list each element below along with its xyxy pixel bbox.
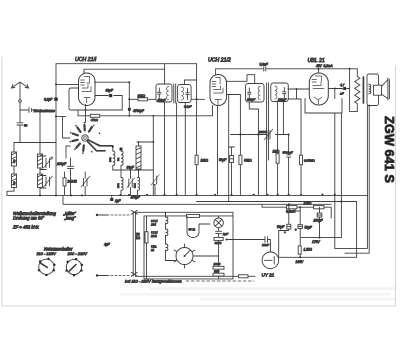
IF2 secondary bottom leads <box>277 101 279 195</box>
jog bus1 to bus2 <box>164 64 166 69</box>
resistor 120 ohm <box>314 206 325 209</box>
trimmer line <box>231 134 289 136</box>
dashed link <box>186 280 254 282</box>
tube UBL21 envelope <box>309 73 328 105</box>
wire row link <box>113 169 154 171</box>
wire rail to tube1 <box>56 83 79 85</box>
NOISE <box>120 287 395 301</box>
wire anode down long <box>334 89 336 249</box>
capacitor 1uF on bus <box>110 195 121 202</box>
pilot lamp <box>214 216 224 231</box>
wire rectifier cathode <box>278 231 280 258</box>
wire to coils <box>14 126 20 152</box>
heater UY21 <box>187 216 210 238</box>
wire resistor chain <box>218 257 220 279</box>
IF transformer 2 secondary box <box>271 83 289 102</box>
output transformer core <box>362 77 364 103</box>
electrolytic 50uF psu <box>295 211 313 246</box>
rectifier UY21 <box>262 252 279 278</box>
svg-text:165V: 165V <box>296 260 305 264</box>
svg-text:2×B42: 2×B42 <box>67 180 78 184</box>
resistor in top line <box>187 214 200 217</box>
svg-text:120Ω: 120Ω <box>304 202 312 206</box>
resistor 47k below tube1 <box>78 110 213 116</box>
tube1 pin down to switch <box>85 105 87 123</box>
wire coil chain 2 to bus <box>39 188 41 195</box>
svg-text:47kΩ: 47kΩ <box>91 118 99 122</box>
svg-text:0,1μF: 0,1μF <box>44 98 53 102</box>
wire anode down <box>128 82 130 116</box>
IF transformer 1 primary box <box>156 84 172 102</box>
electrolytic 50uF first <box>287 224 291 229</box>
svg-text:6,8mH: 6,8mH <box>286 210 296 214</box>
top bus 2 <box>84 69 165 84</box>
svg-text:6200: 6200 <box>215 241 222 245</box>
svg-text:4,7: 4,7 <box>340 83 345 87</box>
svg-text:102pF: 102pF <box>158 98 166 102</box>
svg-text:30pF: 30pF <box>127 166 135 170</box>
page border right <box>395 66 397 306</box>
resistor 6200 <box>214 237 223 257</box>
wire transformer feed <box>350 69 358 112</box>
switch left contact wires <box>66 146 70 158</box>
rail from bus1 down <box>196 64 198 195</box>
node dots on ground bus <box>39 194 336 197</box>
resistor 550 <box>213 270 224 277</box>
coil L3 330 <box>38 112 43 168</box>
plug Hochantenne <box>29 108 32 113</box>
wire choke feed <box>289 207 300 211</box>
wire rail to switch <box>56 115 66 117</box>
choke 6.8mH <box>287 206 298 209</box>
svg-text:10kΩ: 10kΩ <box>138 94 146 98</box>
mains lead top <box>98 214 107 216</box>
capacitor 62pF right of tube1 <box>95 89 122 98</box>
svg-text:50μF: 50μF <box>305 226 313 230</box>
resistor primary zigzag <box>355 69 360 112</box>
svg-text:kΩ: kΩ <box>136 236 141 240</box>
wire selector to heaters <box>166 256 219 261</box>
svg-text:102pF: 102pF <box>247 98 255 102</box>
wire <box>39 168 41 174</box>
rail2 with resistor 6.8k <box>229 95 241 195</box>
B+ bus second <box>63 195 331 204</box>
svg-text:+: + <box>284 230 286 234</box>
speaker return wires <box>335 106 368 249</box>
wire 165V line <box>279 202 357 258</box>
heater bus top <box>135 211 233 213</box>
svg-text:ZF = 452 kHz: ZF = 452 kHz <box>12 224 40 229</box>
capacitor 50pF <box>17 123 23 125</box>
top bus 1 <box>56 63 197 65</box>
voltage selector plug 220V <box>65 258 83 277</box>
IF1 secondary top stub <box>185 80 197 85</box>
svg-text:21: 21 <box>150 248 155 252</box>
wire antenna down <box>19 110 21 122</box>
resistor 550 mains <box>239 275 249 278</box>
output transformer secondary box <box>367 74 379 106</box>
svg-text:50μF: 50μF <box>277 225 285 229</box>
capacitor 4700pF <box>128 108 131 111</box>
capacitor 5.8nF <box>264 67 266 71</box>
filter line with choke <box>262 204 331 218</box>
resistor 1800 <box>213 262 224 269</box>
svg-text:102pF: 102pF <box>278 97 286 101</box>
svg-text:10kΩ: 10kΩ <box>201 159 209 163</box>
wire to rail <box>20 142 56 144</box>
svg-text:4700pF: 4700pF <box>133 109 145 113</box>
tube1 top cap wire <box>83 69 85 73</box>
trimmer 30pF <box>127 166 135 195</box>
heater UCH21/2 <box>150 223 168 238</box>
box below tube3 <box>305 99 342 114</box>
trimmer 10/30 <box>259 129 273 140</box>
coil L2 500 <box>12 174 17 188</box>
svg-text:5,8nF: 5,8nF <box>260 63 269 67</box>
coil 1502 <box>118 178 123 195</box>
capacitor 22nF <box>226 237 271 252</box>
coil 1514 <box>113 170 140 195</box>
resistor 12k <box>298 246 312 257</box>
IF2 primary top feed <box>254 75 256 84</box>
svg-text:ZGW 641 S: ZGW 641 S <box>382 116 397 183</box>
oscillator trimmer <box>151 175 159 195</box>
voltage selector plug 110V <box>38 258 56 277</box>
svg-text:68kΩ: 68kΩ <box>244 159 252 163</box>
tube2 top cap wire <box>215 69 217 75</box>
rotary wave switch <box>72 125 92 151</box>
left rail <box>55 64 57 196</box>
svg-text:200 - 220V: 200 - 220V <box>67 251 88 256</box>
wire <box>13 166 15 174</box>
svg-text:0,55MΩ: 0,55MΩ <box>304 159 315 163</box>
switch contact dots <box>69 122 100 154</box>
IF1 secondary leads <box>177 103 186 195</box>
electrolytic 100uF <box>314 207 324 237</box>
trimmer mid <box>81 172 90 195</box>
trimmer C antenna 2 <box>40 176 53 189</box>
svg-text:1800: 1800 <box>214 262 221 266</box>
IF transformer 2 primary box <box>246 84 265 103</box>
IF2 primary bottom wire <box>249 102 258 195</box>
oscillator wire <box>137 115 154 176</box>
mains lead bottom <box>98 275 107 277</box>
wire plug to chain2 <box>33 110 41 112</box>
loudspeaker <box>374 78 390 100</box>
tube3 internals <box>312 76 324 104</box>
svg-text:175V: 175V <box>312 240 321 244</box>
svg-text:1MΩ: 1MΩ <box>273 150 280 154</box>
svg-text:„lang“: „lang“ <box>64 216 77 221</box>
IF1 secondary to tube2 grid <box>192 98 205 100</box>
svg-text:100pF: 100pF <box>57 162 67 166</box>
svg-text:100μF: 100μF <box>314 219 324 223</box>
IF2 core <box>267 83 269 102</box>
resistor 0.55M rail4 <box>288 134 316 195</box>
IF2 secondary to tube3 diode <box>283 89 309 135</box>
diode return wire <box>288 89 301 155</box>
resistor 10k line <box>129 98 156 100</box>
resistor 2x B42 <box>63 172 77 195</box>
coupling line with 5.8nF <box>216 68 358 70</box>
IF1 core <box>174 84 176 103</box>
svg-text:45V 0,3mA: 45V 0,3mA <box>316 64 333 68</box>
heater UCH21/I <box>150 212 168 226</box>
grid box around tube1 left <box>69 88 122 110</box>
svg-text:4μF: 4μF <box>104 243 111 247</box>
mains switch <box>131 210 137 276</box>
capacitor 1uF lamp <box>216 231 230 237</box>
svg-text:UCH 21/2: UCH 21/2 <box>208 58 231 64</box>
coil 1513 <box>136 141 141 170</box>
capacitor 5000pF <box>283 135 293 195</box>
tube2 internals <box>212 78 223 105</box>
svg-text:21/2: 21/2 <box>150 234 157 238</box>
svg-text:1,2kΩ: 1,2kΩ <box>304 248 313 252</box>
svg-text:Drehung um 60°: Drehung um 60° <box>13 216 45 221</box>
svg-text:21/I: 21/I <box>150 222 156 226</box>
IF transformer 1 secondary box <box>178 85 192 109</box>
wire lamp row <box>166 212 219 216</box>
bottom mains bus <box>135 275 255 277</box>
node psu <box>299 256 301 258</box>
switch center <box>82 135 88 141</box>
tube2 pins down <box>213 106 218 195</box>
trimmer C antenna 1 <box>40 156 53 170</box>
IF2 core ground wires <box>267 102 269 195</box>
coil 101 <box>118 148 123 177</box>
tube2 anode line right <box>227 75 255 82</box>
selector drum <box>174 244 195 268</box>
coil 1501 <box>110 147 115 170</box>
svg-text:UCH 21/I: UCH 21/I <box>75 57 97 63</box>
secondary coil <box>369 84 371 94</box>
wire 175V vertical <box>301 113 341 238</box>
wire 62pF down <box>121 96 123 111</box>
wire screen down <box>227 95 229 202</box>
capacitor on coil101 top <box>120 148 123 151</box>
tube1 anode line <box>95 81 130 83</box>
capacitor 100pF <box>57 158 74 195</box>
resistor 56k <box>136 216 148 279</box>
wire coil chain to bus <box>7 188 14 196</box>
capacitor 4.7nF <box>343 87 346 90</box>
resistor 10k <box>138 98 148 101</box>
svg-text:UY 21: UY 21 <box>189 229 196 232</box>
svg-text:22nF: 22nF <box>261 243 270 247</box>
tube UCH21/2 envelope <box>210 75 227 106</box>
svg-text:+: + <box>295 228 297 232</box>
node rail-tube1 <box>55 83 57 85</box>
heater UBL21 <box>150 235 168 261</box>
svg-text:62pF: 62pF <box>106 89 114 93</box>
svg-text:50: 50 <box>24 123 28 127</box>
tube UCH21/I envelope <box>79 73 96 106</box>
svg-text:110 - 125V: 110 - 125V <box>37 251 57 256</box>
switch wiper arms <box>88 140 113 147</box>
tube3 top cap wire <box>318 69 320 73</box>
electrolytic 50uF mid <box>219 147 235 195</box>
svg-text:470pF: 470pF <box>131 196 141 200</box>
antenna <box>12 82 29 102</box>
heater box <box>144 212 233 279</box>
svg-text:10/30: 10/30 <box>259 130 267 134</box>
node rail y116 <box>55 115 57 117</box>
coil L1 330 <box>12 152 17 166</box>
resistor 10k rail <box>195 155 198 165</box>
tube1 internals <box>81 77 92 104</box>
svg-text:UY 21: UY 21 <box>262 273 275 278</box>
node anode <box>334 88 336 90</box>
svg-text:50μF: 50μF <box>219 158 227 162</box>
page border bottom <box>2 305 396 307</box>
B bus third <box>197 201 357 203</box>
svg-text:bei 110 - 220V kurzgeschlossen: bei 110 - 220V kurzgeschlossen <box>125 278 182 283</box>
wire antenna to plug <box>20 102 28 110</box>
resistor 1M rail3 <box>276 154 279 164</box>
ground bus main <box>7 194 368 196</box>
tube3 anode line <box>328 88 349 90</box>
page border left <box>1 57 3 306</box>
IF1 primary bottom wire <box>164 102 166 195</box>
coil L4 494 <box>38 174 43 188</box>
psu junction wires <box>279 204 289 230</box>
capacitor 0.1uF on left rail <box>54 98 58 101</box>
node <box>112 146 114 148</box>
svg-text:5000pF: 5000pF <box>283 151 293 155</box>
